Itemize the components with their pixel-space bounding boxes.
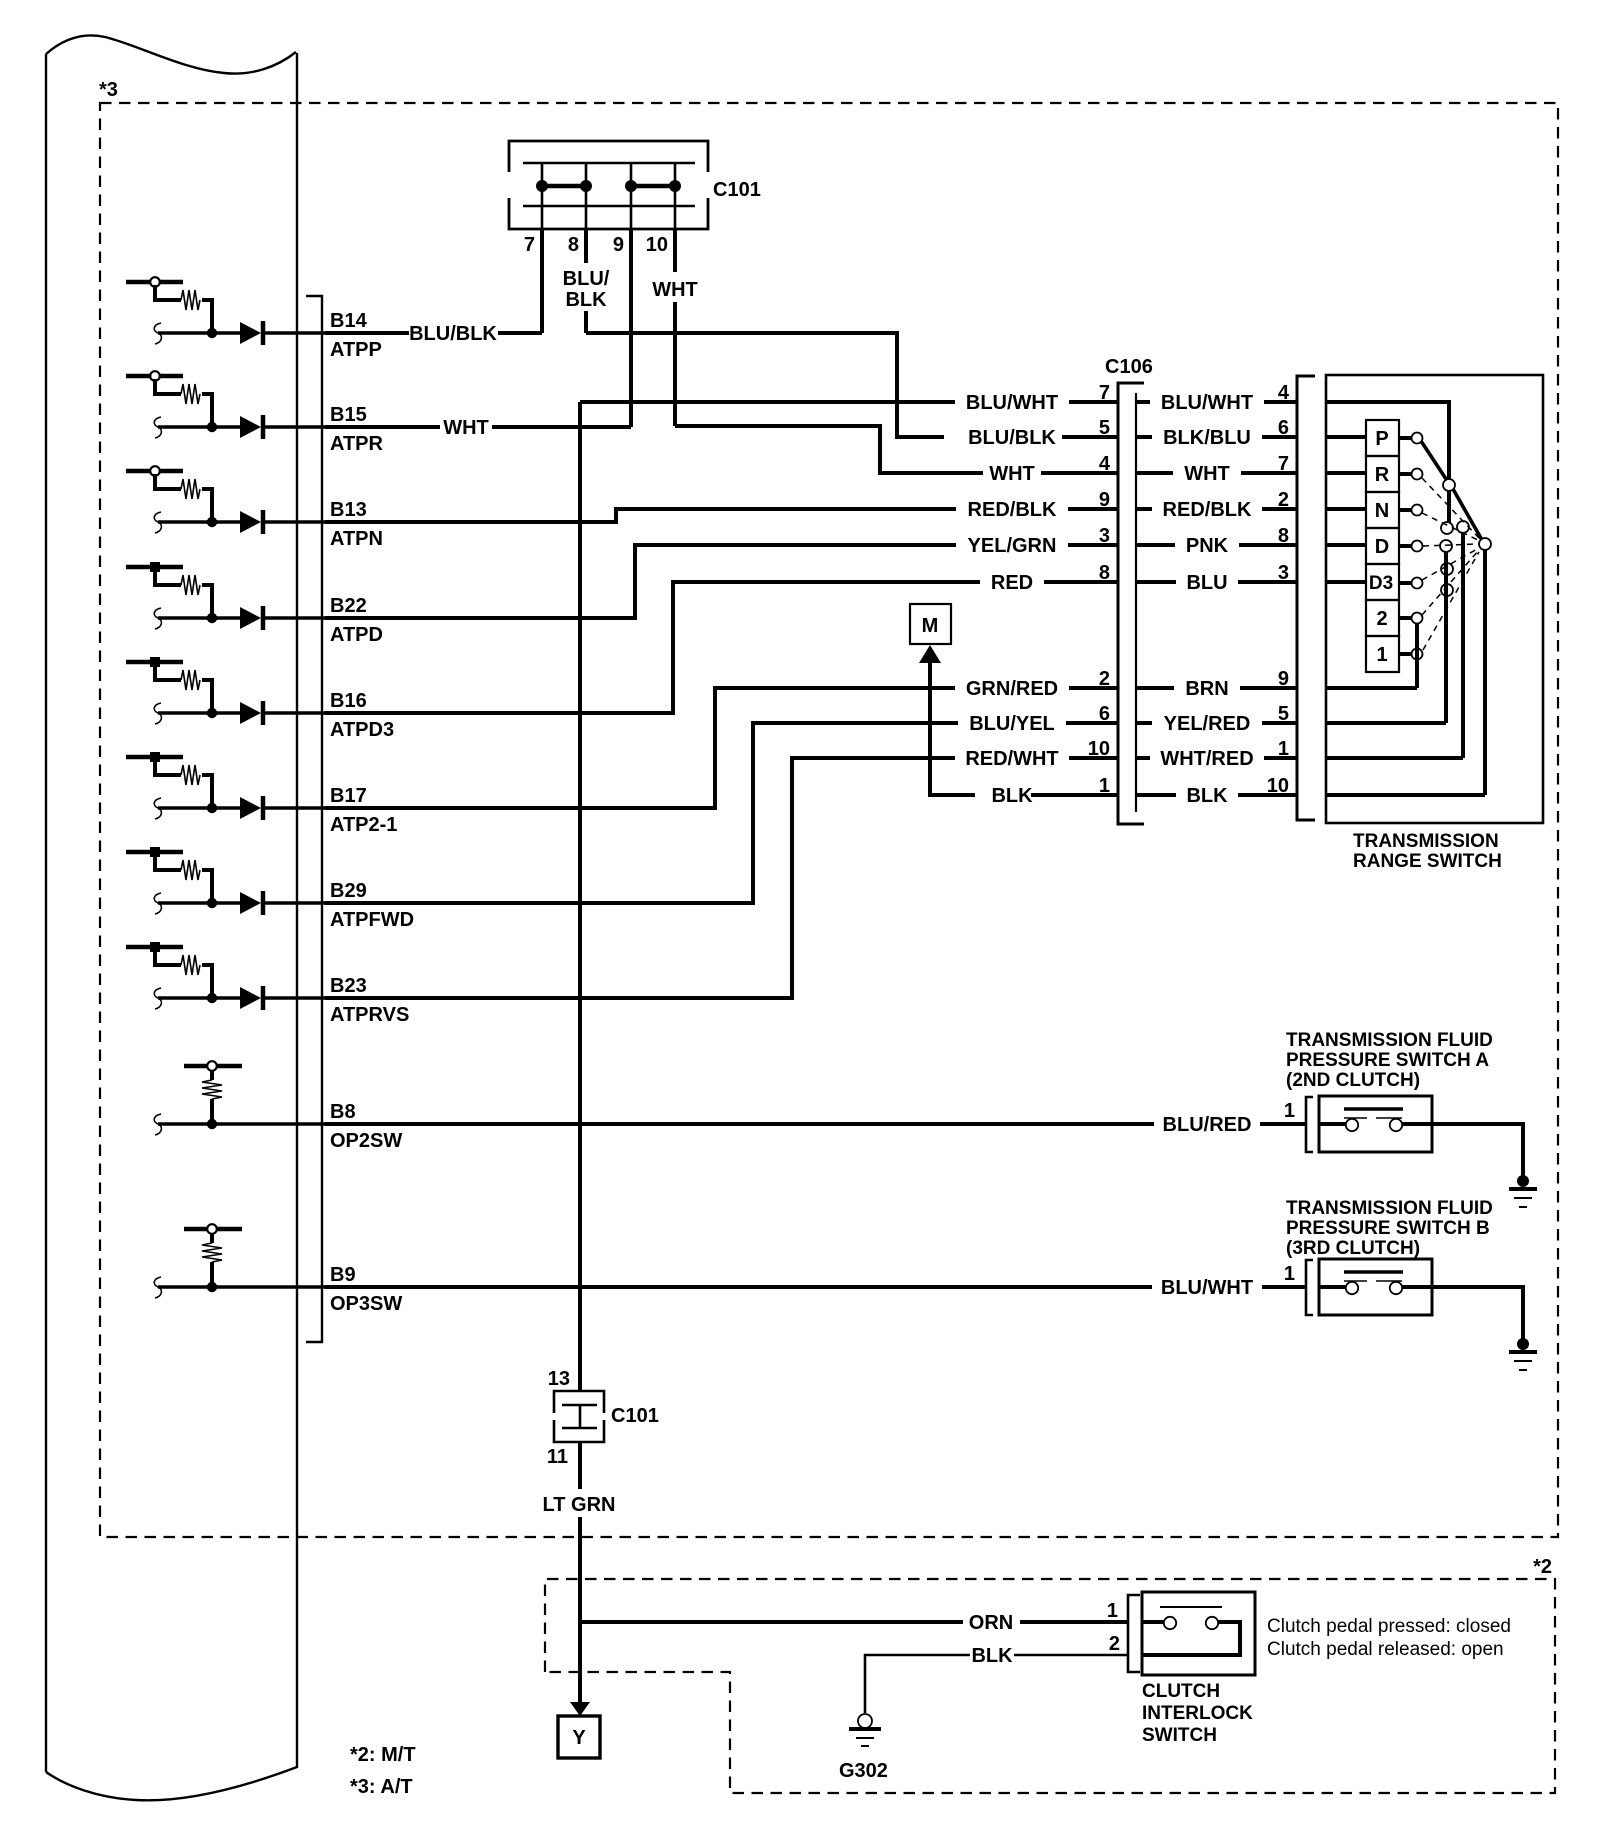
svg-text:1: 1 (1376, 644, 1387, 666)
svg-text:Clutch pedal released: open: Clutch pedal released: open (1267, 1639, 1504, 1660)
wire ECU row y=903 up to C106 row (BLU/YEL) (325, 723, 958, 903)
svg-text:YEL/RED: YEL/RED (1164, 713, 1251, 735)
range switch position cells P R N D D3 2 1 (1366, 420, 1399, 672)
ECU internal pull-up circuit for pin B9 (154, 1224, 330, 1298)
svg-text:BLK: BLK (565, 289, 607, 311)
wire C101 pin 7 stub down to B14 row (540, 229, 544, 333)
contact stubs and circles P R N D D3 2 1 (1399, 438, 1411, 654)
svg-text:WHT: WHT (1184, 463, 1230, 485)
svg-text:3: 3 (1099, 525, 1110, 547)
wire BLK row into switch to bus (1326, 793, 1485, 797)
wire BLK between C106 and transmission range switch connector (1137, 793, 1176, 797)
svg-text:WHT: WHT (443, 417, 489, 439)
wire ECU row y=522 up to C106 row (RED/BLK) (325, 509, 956, 522)
wire ECU row y=713 up to C106 row (RED) (325, 582, 980, 713)
svg-text:ATPD: ATPD (330, 624, 383, 646)
svg-text:BLU: BLU (1186, 572, 1227, 594)
svg-text:BLU/WHT: BLU/WHT (1161, 392, 1253, 414)
svg-text:7: 7 (524, 234, 535, 256)
pressure switch A contact bar (1344, 1107, 1403, 1111)
wire YEL/RED between C106 and transmission range switch connector (1137, 721, 1152, 725)
pressure switch B terminals (1319, 1285, 1346, 1289)
svg-text:8: 8 (1278, 525, 1289, 547)
svg-text:ATPP: ATPP (330, 339, 382, 361)
svg-text:RED/BLK: RED/BLK (1163, 499, 1252, 521)
svg-text:1: 1 (1278, 738, 1289, 760)
ECU internal pull-up circuit for pin B23 (126, 942, 330, 1010)
wire WHT/RED row into switch to bus (1326, 756, 1463, 760)
wire C101 pin 8 stub (BLU/BLK) (584, 229, 588, 263)
svg-text:C101: C101 (611, 1405, 659, 1427)
svg-text:*3: *3 (99, 79, 118, 101)
svg-text:2: 2 (1099, 668, 1110, 690)
wire YEL/RED row into switch to bus (1326, 721, 1446, 725)
svg-text:PRESSURE SWITCH A: PRESSURE SWITCH A (1286, 1050, 1489, 1071)
bus from circle C down to WHT/RED row (1461, 533, 1465, 758)
svg-text:BLU/BLK: BLU/BLK (409, 323, 497, 345)
svg-text:10: 10 (1088, 738, 1110, 760)
dashed alternate blade lines (1422, 478, 1480, 650)
svg-text:SWITCH: SWITCH (1142, 1725, 1217, 1746)
svg-text:RED/BLK: RED/BLK (968, 499, 1057, 521)
svg-text:*2: *2 (1533, 1556, 1552, 1578)
svg-text:ATP2-1: ATP2-1 (330, 814, 397, 836)
pole bus segment A-B (1447, 490, 1451, 523)
pressure switch A contact arms (1344, 1117, 1367, 1119)
svg-text:BLK/BLU: BLK/BLU (1163, 427, 1251, 449)
ground (pressure switch A) (1517, 1175, 1529, 1187)
svg-text:PRESSURE SWITCH B: PRESSURE SWITCH B (1286, 1218, 1490, 1239)
C101 pin 8 terminal (585, 163, 588, 229)
svg-text:10: 10 (646, 234, 668, 256)
svg-text:TRANSMISSION: TRANSMISSION (1353, 831, 1499, 852)
svg-text:11: 11 (547, 1446, 568, 1468)
svg-text:ATPD3: ATPD3 (330, 719, 394, 741)
terminal Y box (558, 1716, 600, 1758)
svg-text:BLU/YEL: BLU/YEL (969, 713, 1055, 735)
bus from common circle down to BLK row (1483, 550, 1487, 795)
svg-text:8: 8 (568, 234, 579, 256)
svg-text:Y: Y (572, 1727, 586, 1749)
wire row4 to N cell (1326, 507, 1366, 511)
ECU connector strip (wavy-edged) (46, 36, 297, 1801)
svg-text:BLU/WHT: BLU/WHT (966, 392, 1058, 414)
pressure switch B contact arms (1344, 1280, 1367, 1282)
ground G302 (858, 1714, 872, 1728)
wire ECU row y=998 up to C106 row (RED/WHT) (325, 758, 955, 998)
svg-text:BLU/WHT: BLU/WHT (1161, 1277, 1253, 1299)
svg-text:B14: B14 (330, 310, 368, 332)
svg-text:BLU/: BLU/ (563, 268, 610, 290)
wire RED/BLK between C106 and transmission range switch connector (1137, 507, 1152, 511)
svg-text:OP2SW: OP2SW (330, 1130, 402, 1152)
svg-text:CLUTCH: CLUTCH (1142, 1681, 1220, 1702)
wire pressure switch B to ground (1432, 1287, 1523, 1343)
wire C101 pin 9 stub down to B15 WHT row (629, 229, 633, 427)
svg-text:5: 5 (1278, 703, 1289, 725)
arrowhead to Y terminal (570, 1702, 590, 1716)
svg-text:5: 5 (1099, 417, 1110, 439)
wire BRN row into switch to bus (1326, 686, 1417, 690)
svg-text:C106: C106 (1105, 356, 1153, 378)
bus linking 2 and 1 contacts down to BRN row (1415, 624, 1419, 688)
svg-text:INTERLOCK: INTERLOCK (1142, 1703, 1253, 1724)
ECU internal pull-up circuit for pin B22 (126, 562, 330, 630)
clutch interlock switch housing (1142, 1592, 1255, 1675)
svg-text:2: 2 (1278, 489, 1289, 511)
clutch interlock switch contact bar (1160, 1606, 1222, 1608)
wire C101 pin 10 stub (WHT) (673, 229, 677, 272)
wire B9 BLU/WHT row to pressure switch B (325, 1285, 1152, 1289)
wire B14 BLU/BLK row to C101 pin 7 (325, 331, 409, 335)
wire B8 BLU/RED row to pressure switch A (325, 1122, 1154, 1126)
svg-text:13: 13 (548, 1368, 570, 1390)
pressure switch A housing (1319, 1096, 1432, 1152)
svg-text:OP3SW: OP3SW (330, 1293, 402, 1315)
svg-text:BLK: BLK (991, 785, 1033, 807)
svg-text:PNK: PNK (1186, 535, 1229, 557)
dashed box *2 (M/T section) (545, 1579, 1555, 1793)
svg-text:B8: B8 (330, 1101, 356, 1123)
wire ECU row y=618 up to C106 row (YEL/GRN) (325, 545, 956, 618)
wire B15 WHT row to C101 pin 9 (325, 425, 440, 429)
connector C101 (top) outline (509, 141, 708, 229)
svg-text:ORN: ORN (969, 1612, 1013, 1634)
svg-text:C101: C101 (713, 179, 761, 201)
wire row6 to D3 cell (1326, 580, 1366, 584)
C101 (bottom) internal terminals (562, 1404, 597, 1406)
svg-text:(3RD CLUTCH): (3RD CLUTCH) (1286, 1238, 1420, 1259)
svg-text:(2ND CLUTCH): (2ND CLUTCH) (1286, 1070, 1420, 1091)
ECU internal pull-up circuit for pin B17 (126, 752, 330, 820)
svg-text:9: 9 (1099, 489, 1110, 511)
svg-text:GRN/RED: GRN/RED (966, 678, 1058, 700)
ECU internal pull-up circuit for pin B8 (154, 1061, 330, 1135)
wire pressure switch A to ground (1432, 1124, 1523, 1180)
connector C106 left half (1118, 383, 1144, 824)
svg-text:LT GRN: LT GRN (543, 1494, 616, 1516)
svg-text:RANGE SWITCH: RANGE SWITCH (1353, 851, 1502, 872)
svg-text:7: 7 (1278, 453, 1289, 475)
C101 internal terminal rails (523, 163, 695, 206)
wire BLU/WHT between C106 and transmission range switch connector (1137, 400, 1150, 404)
ground (pressure switch B) (1517, 1338, 1529, 1350)
svg-text:P: P (1375, 428, 1388, 450)
pole circles (1440, 479, 1491, 596)
wire BLU/WHT from junction to C106 pin 7 (580, 400, 955, 404)
shift solenoid motor symbol M (910, 604, 951, 644)
C101 joint bar pins 9-10 (631, 184, 675, 189)
svg-text:B16: B16 (330, 690, 367, 712)
ECU internal pull-up circuit for pin B29 (126, 847, 330, 915)
svg-text:8: 8 (1099, 562, 1110, 584)
wire row1 into switch to pole bus (1326, 402, 1449, 479)
wire row3 to R cell (1326, 471, 1366, 475)
svg-text:B15: B15 (330, 404, 367, 426)
svg-text:B23: B23 (330, 975, 367, 997)
svg-text:M: M (922, 615, 939, 637)
svg-text:BLU/RED: BLU/RED (1163, 1114, 1252, 1136)
wire BLK from clutch interlock switch to G302 (1014, 1654, 1128, 1657)
svg-text:1: 1 (1107, 1600, 1118, 1622)
wire from M down to BLK row (930, 661, 975, 795)
ECU internal pull-up circuit for pin B13 (126, 466, 330, 534)
svg-text:9: 9 (613, 234, 624, 256)
svg-text:G302: G302 (839, 1760, 888, 1782)
wire BLK/BLU between C106 and transmission range switch connector (1137, 435, 1152, 439)
transmission range switch connector bracket (1297, 376, 1315, 820)
svg-text:ATPRVS: ATPRVS (330, 1004, 409, 1026)
wire trunk BLU/WHT down to C101 pin 13 (long vertical) (578, 402, 582, 1391)
pressure switch A connector bracket (1306, 1097, 1313, 1152)
ECU pin header bracket (306, 296, 322, 1342)
C101 joint bar pins 7-8 (542, 184, 586, 189)
ECU internal pull-up circuit for pin B14 (126, 277, 330, 345)
pressure switch A terminals (1319, 1122, 1346, 1126)
svg-text:D3: D3 (1369, 573, 1393, 594)
svg-text:RED: RED (991, 572, 1033, 594)
svg-text:Clutch pedal pressed: closed: Clutch pedal pressed: closed (1267, 1616, 1511, 1637)
ECU internal pull-up circuit for pin B16 (126, 657, 330, 725)
svg-text:WHT: WHT (652, 279, 698, 301)
connector C101 (bottom) outline (554, 1391, 604, 1442)
svg-text:TRANSMISSION FLUID: TRANSMISSION FLUID (1286, 1030, 1493, 1051)
svg-text:B29: B29 (330, 880, 367, 902)
wire WHT between C106 and transmission range switch connector (1137, 471, 1173, 475)
clutch interlock switch connector bracket (1128, 1595, 1140, 1672)
wire WHT/RED between C106 and transmission range switch connector (1137, 756, 1150, 760)
wire row2 to P cell (1326, 435, 1366, 439)
pressure switch B housing (1319, 1259, 1432, 1315)
svg-text:1: 1 (1099, 775, 1110, 797)
svg-text:YEL/GRN: YEL/GRN (968, 535, 1057, 557)
wire LT GRN from C101 pin 11 down (578, 1442, 582, 1489)
svg-text:BLK: BLK (1186, 785, 1228, 807)
wire C101 pin 10 to C106 pin 4 (WHT) (675, 426, 983, 473)
wire ECU row y=808 up to C106 row (GRN/RED) (325, 688, 955, 808)
svg-text:TRANSMISSION FLUID: TRANSMISSION FLUID (1286, 1198, 1493, 1219)
wire down to Y terminal (578, 1622, 582, 1703)
arrow into M box (919, 645, 941, 663)
wire PNK between C106 and transmission range switch connector (1137, 543, 1175, 547)
svg-text:*2: M/T: *2: M/T (350, 1744, 416, 1766)
svg-text:6: 6 (1278, 417, 1289, 439)
svg-text:B13: B13 (330, 499, 367, 521)
wire BLU between C106 and transmission range switch connector (1137, 580, 1176, 584)
svg-text:BRN: BRN (1185, 678, 1228, 700)
bus from D-row circle chain down to YEL/RED row (1444, 552, 1448, 723)
wire row5 to D cell (1326, 543, 1366, 547)
connector C106 right half (1135, 393, 1137, 812)
svg-text:D: D (1375, 536, 1389, 558)
svg-text:WHT: WHT (989, 463, 1035, 485)
transmission range switch housing (1326, 375, 1543, 823)
svg-text:BLK: BLK (971, 1645, 1013, 1667)
svg-text:R: R (1375, 464, 1390, 486)
svg-text:4: 4 (1278, 382, 1290, 404)
svg-text:2: 2 (1376, 608, 1387, 630)
svg-text:2: 2 (1109, 1633, 1120, 1655)
svg-text:N: N (1375, 500, 1389, 522)
clutch interlock switch terminals (1142, 1620, 1164, 1624)
svg-text:4: 4 (1099, 453, 1111, 475)
svg-text:*3: A/T: *3: A/T (350, 1776, 413, 1798)
wire C101 pin 8 to C106 pin 5 (BLU/BLK) (586, 333, 944, 437)
pressure switch B contact bar (1344, 1270, 1403, 1274)
svg-text:7: 7 (1099, 382, 1110, 404)
svg-text:1: 1 (1284, 1100, 1295, 1122)
C101 pin 7 terminal (541, 163, 544, 229)
C101 pin 9 terminal (630, 163, 633, 229)
svg-text:B9: B9 (330, 1264, 356, 1286)
svg-text:9: 9 (1278, 668, 1289, 690)
svg-text:RED/WHT: RED/WHT (965, 748, 1058, 770)
pressure switch B connector bracket (1306, 1260, 1313, 1315)
svg-text:3: 3 (1278, 562, 1289, 584)
svg-text:ATPN: ATPN (330, 528, 383, 550)
svg-text:BLU/BLK: BLU/BLK (968, 427, 1056, 449)
wire BRN between C106 and transmission range switch connector (1137, 686, 1174, 690)
svg-text:10: 10 (1267, 775, 1289, 797)
C101 pin 10 terminal (674, 163, 677, 229)
svg-text:1: 1 (1284, 1263, 1295, 1285)
ECU internal pull-up circuit for pin B15 (126, 371, 330, 439)
svg-text:6: 6 (1099, 703, 1110, 725)
switch blade P position (solid) (1421, 441, 1448, 482)
svg-text:WHT/RED: WHT/RED (1160, 748, 1253, 770)
svg-text:B22: B22 (330, 595, 367, 617)
dashed box *3 (A/T section) (100, 103, 1558, 1537)
wire branch to clutch interlock switch (ORN) (580, 1620, 963, 1624)
svg-text:ATPR: ATPR (330, 433, 384, 455)
svg-text:ATPFWD: ATPFWD (330, 909, 414, 931)
svg-text:B17: B17 (330, 785, 367, 807)
